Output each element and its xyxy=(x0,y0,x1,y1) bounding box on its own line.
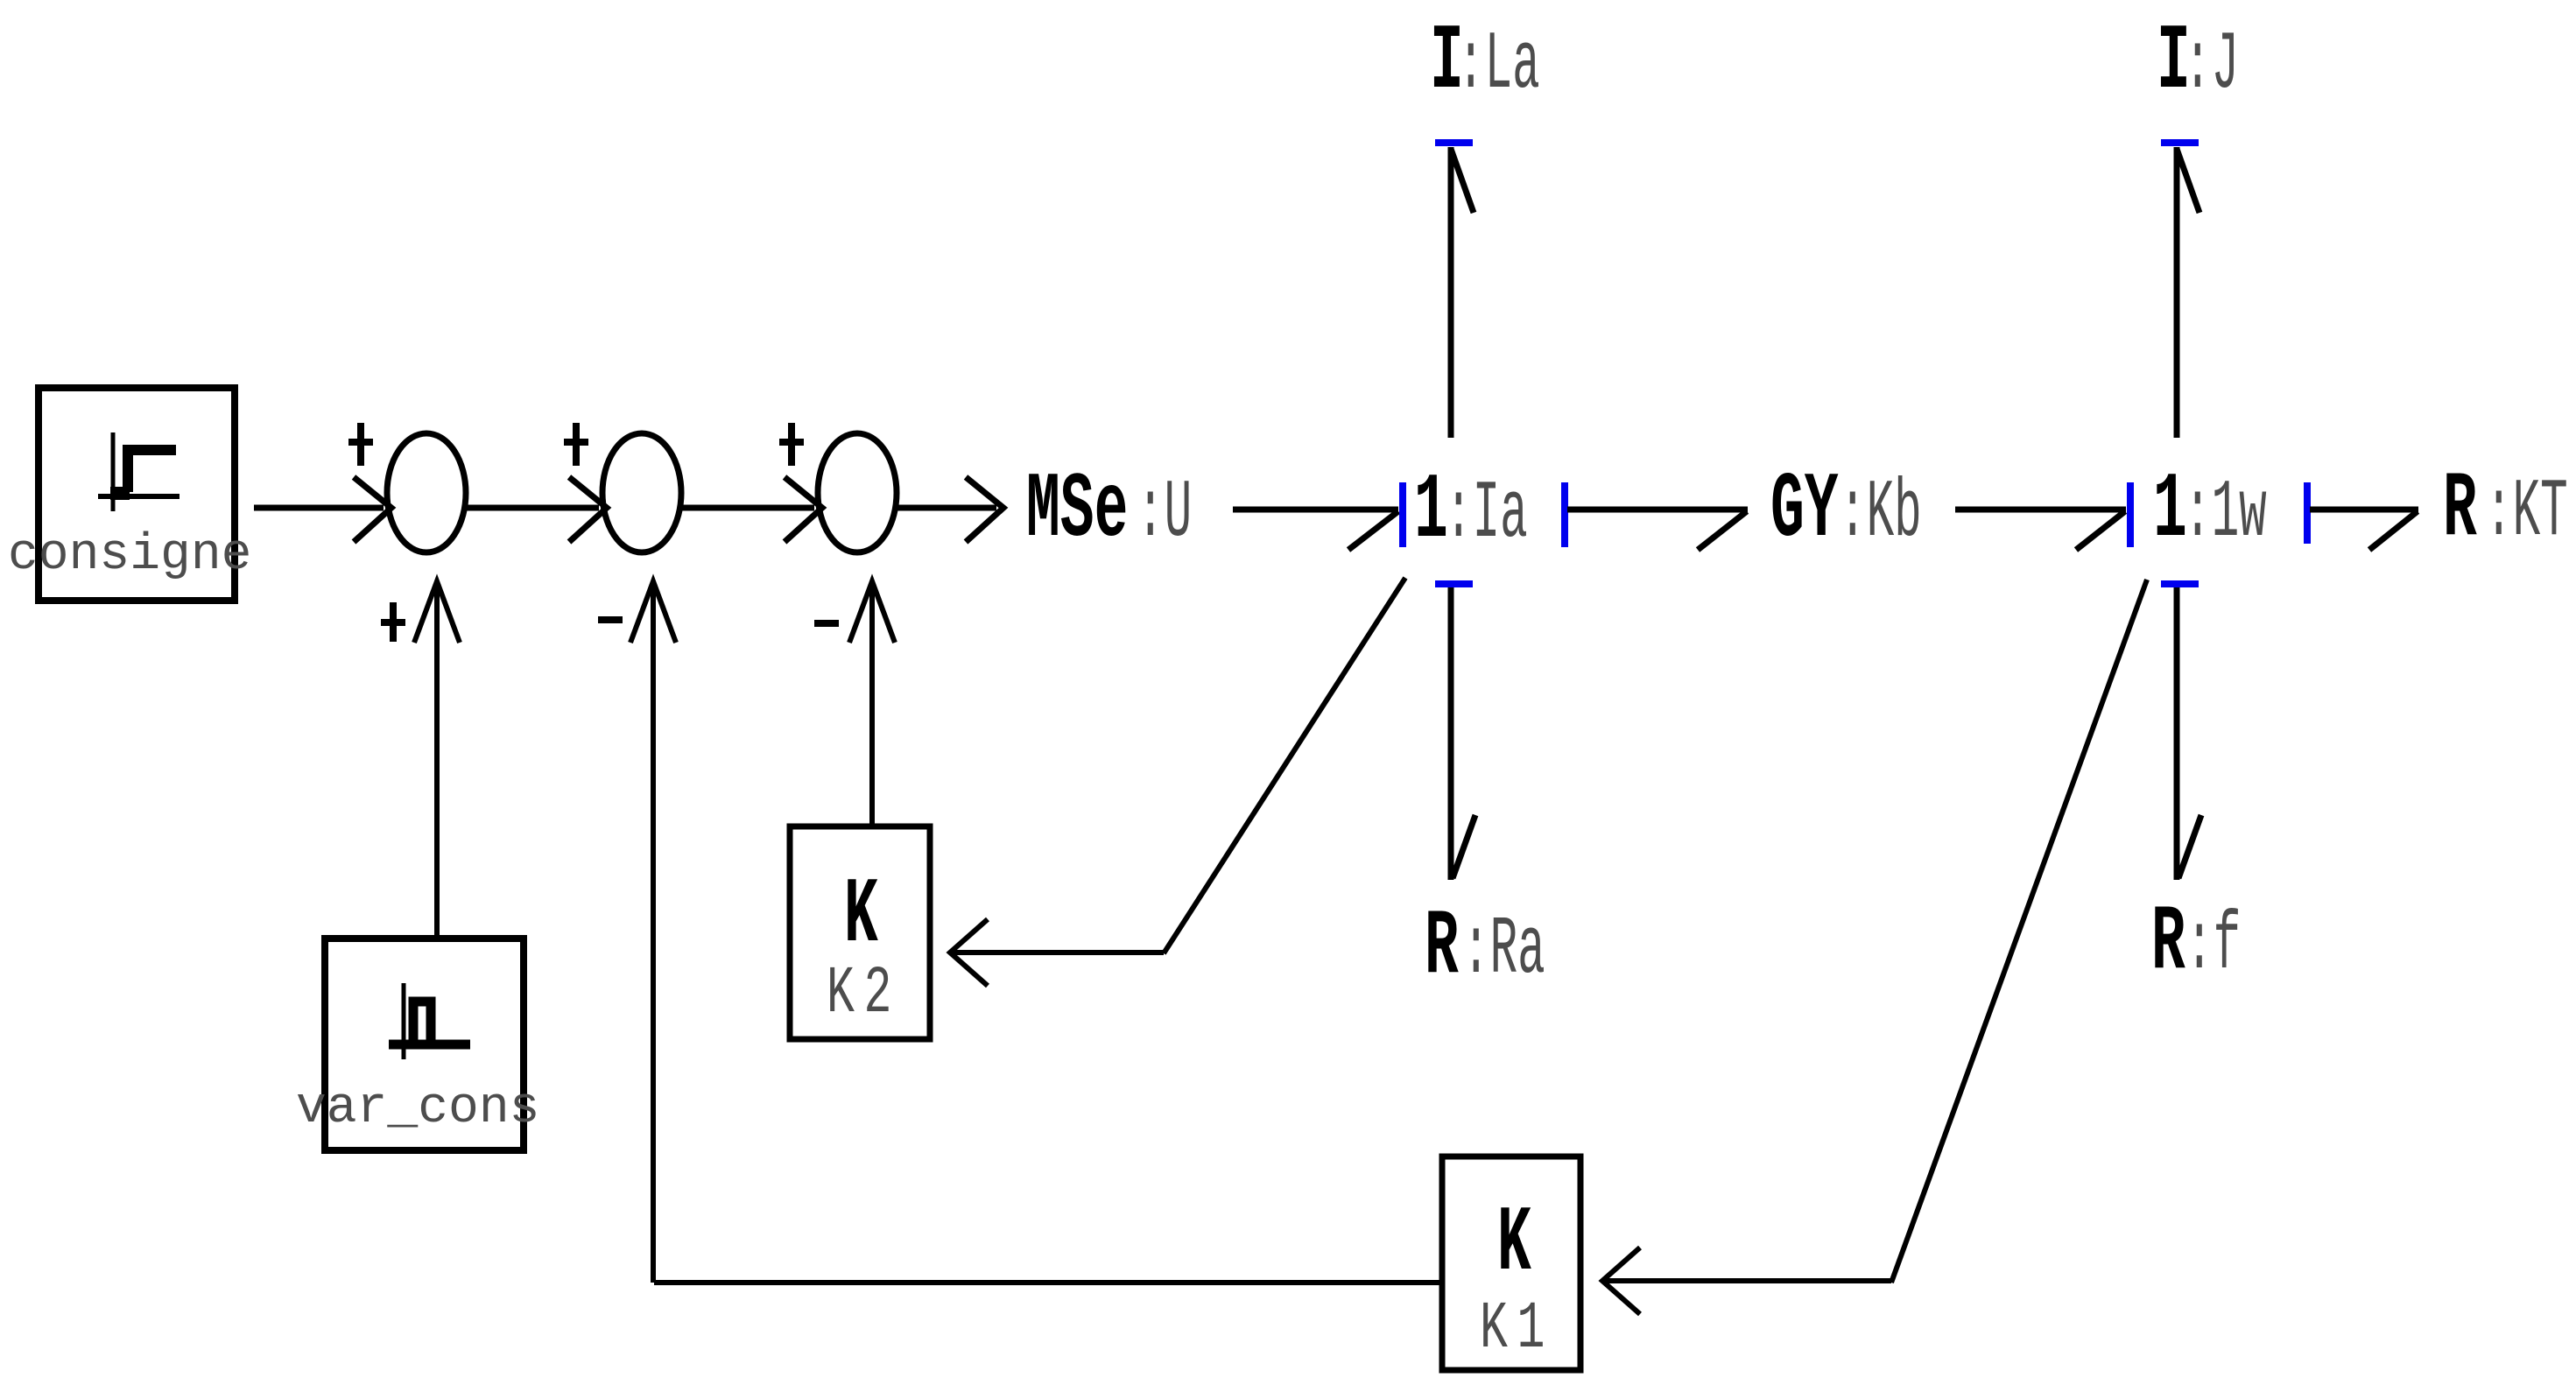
svg-text:K 2: K 2 xyxy=(827,955,891,1031)
svg-text::1w: :1w xyxy=(2184,467,2267,559)
summing junction S1 (0-junction circle) xyxy=(387,433,466,552)
signal wire horizontal into K2 xyxy=(950,950,1164,955)
svg-text::f: :f xyxy=(2185,899,2241,992)
bond J2 up to I:J xyxy=(2174,147,2180,438)
gain block K2 xyxy=(790,826,930,1039)
wire S2 to summer S3 xyxy=(682,505,814,511)
arrowhead into K2 xyxy=(950,919,988,986)
wire consigne to summer 1 xyxy=(254,505,384,511)
summing junction S2 xyxy=(602,433,681,552)
1-junction J2 label 1:1w xyxy=(2153,459,2267,564)
causality stroke (blue) at J2 left xyxy=(2127,482,2134,547)
source block var_cons (pulse source) xyxy=(325,939,524,1150)
causality stroke (blue) at I:La xyxy=(1435,139,1473,146)
svg-text:MSe: MSe xyxy=(1026,459,1128,564)
arrowhead into summer 1 xyxy=(354,477,391,542)
resistor R:KT xyxy=(2443,458,2568,563)
svg-text:consigne: consigne xyxy=(8,527,251,584)
pulse icon inside var_cons xyxy=(389,983,470,1059)
bond J1 up to I:La xyxy=(1448,147,1454,438)
bond J1 down to R:Ra xyxy=(1448,587,1454,880)
inertia I:J xyxy=(2157,11,2239,116)
svg-text:R: R xyxy=(2151,891,2185,996)
half-arrow barb at GY end xyxy=(1698,511,1747,550)
svg-text:K 1: K 1 xyxy=(1480,1290,1545,1367)
bond J1 to GY xyxy=(1567,507,1748,513)
gain block K1 xyxy=(1442,1156,1580,1370)
svg-text:GY: GY xyxy=(1770,459,1839,564)
signal arrow up into S1 bottom (from var_cons) xyxy=(434,588,440,935)
resistor R:Ra xyxy=(1425,896,1545,1001)
minus sign left of arrow xyxy=(598,616,623,623)
svg-text::Ia: :Ia xyxy=(1445,468,1528,560)
svg-text:R: R xyxy=(1425,896,1459,1001)
arrowhead into MSe xyxy=(966,477,1003,542)
causality stroke (blue) at I:J xyxy=(2161,139,2199,146)
causality stroke (blue) at J2 right xyxy=(2304,482,2311,544)
svg-text:1: 1 xyxy=(2153,459,2187,564)
minus sign left of arrow xyxy=(814,620,839,627)
half-arrow barb at top xyxy=(1451,149,1474,213)
svg-text:1: 1 xyxy=(1414,460,1448,565)
wire S1 to summer S2 xyxy=(467,505,599,511)
step icon inside consigne xyxy=(98,432,179,511)
svg-text::U: :U xyxy=(1137,467,1192,559)
svg-text::La: :La xyxy=(1457,18,1540,111)
half-arrow barb at bottom xyxy=(2178,815,2201,878)
plus sign above S2 xyxy=(564,423,588,466)
signal wire from J2 tap to K1: diagonal xyxy=(1891,580,2147,1283)
bond J2 down to R:f xyxy=(2174,587,2180,880)
arrowhead into K1 xyxy=(1602,1248,1640,1314)
causality stroke (blue) near J2 xyxy=(2161,580,2199,587)
bond MSe to junction J1 xyxy=(1233,507,1398,513)
half-arrow barb at top xyxy=(2177,149,2199,213)
arrowhead up into S3 xyxy=(849,581,895,643)
signal arrow up into S2 bottom (from K1 loop) xyxy=(651,588,656,1283)
svg-text:var_cons: var_cons xyxy=(296,1080,539,1137)
arrowhead into S3 xyxy=(785,477,822,542)
signal wire horizontal into K1 xyxy=(1602,1278,1891,1283)
plus sign above S1 xyxy=(348,423,373,466)
signal arrow up into S3 bottom (from K2) xyxy=(869,588,875,824)
plus sign left of arrow xyxy=(381,602,405,642)
half-arrow barb at R end xyxy=(2369,511,2418,550)
svg-text::Kb: :Kb xyxy=(1839,467,1922,559)
1-junction J1 label 1:Ia xyxy=(1414,460,1528,565)
half-arrow barb xyxy=(1348,511,1398,550)
arrowhead up into S1 xyxy=(414,581,460,643)
signal wire K1 out left xyxy=(654,1280,1442,1285)
summing junction S3 xyxy=(818,433,897,552)
inertia I:La xyxy=(1430,11,1540,116)
causality stroke (blue) at J1 right xyxy=(1561,482,1568,547)
half-arrow barb at J2 end xyxy=(2076,511,2125,550)
svg-text::Ra: :Ra xyxy=(1462,903,1545,996)
arrowhead into S2 xyxy=(569,477,607,542)
svg-text::KT: :KT xyxy=(2485,466,2568,559)
svg-text:K: K xyxy=(1497,1192,1531,1297)
arrowhead up into S2 xyxy=(630,581,676,643)
causality stroke (blue) near J1 xyxy=(1435,580,1473,587)
source MSe:U xyxy=(1026,459,1192,564)
source block consigne (step source) xyxy=(39,388,235,601)
gyrator GY:Kb xyxy=(1770,459,1922,564)
svg-text:K: K xyxy=(844,864,878,969)
plus sign above S3 xyxy=(779,423,804,466)
causality stroke (blue) at J1 left xyxy=(1399,482,1406,547)
svg-text:R: R xyxy=(2443,458,2477,563)
resistor R:f xyxy=(2151,891,2241,996)
signal wire from J1 tap to K2: diagonal xyxy=(1164,578,1405,953)
bond J2 to R:KT xyxy=(2310,507,2418,513)
half-arrow barb at bottom xyxy=(1453,815,1475,878)
wire S3 to MSe xyxy=(897,505,996,511)
bond GY to junction J2 xyxy=(1955,507,2126,513)
svg-text::J: :J xyxy=(2184,18,2239,111)
